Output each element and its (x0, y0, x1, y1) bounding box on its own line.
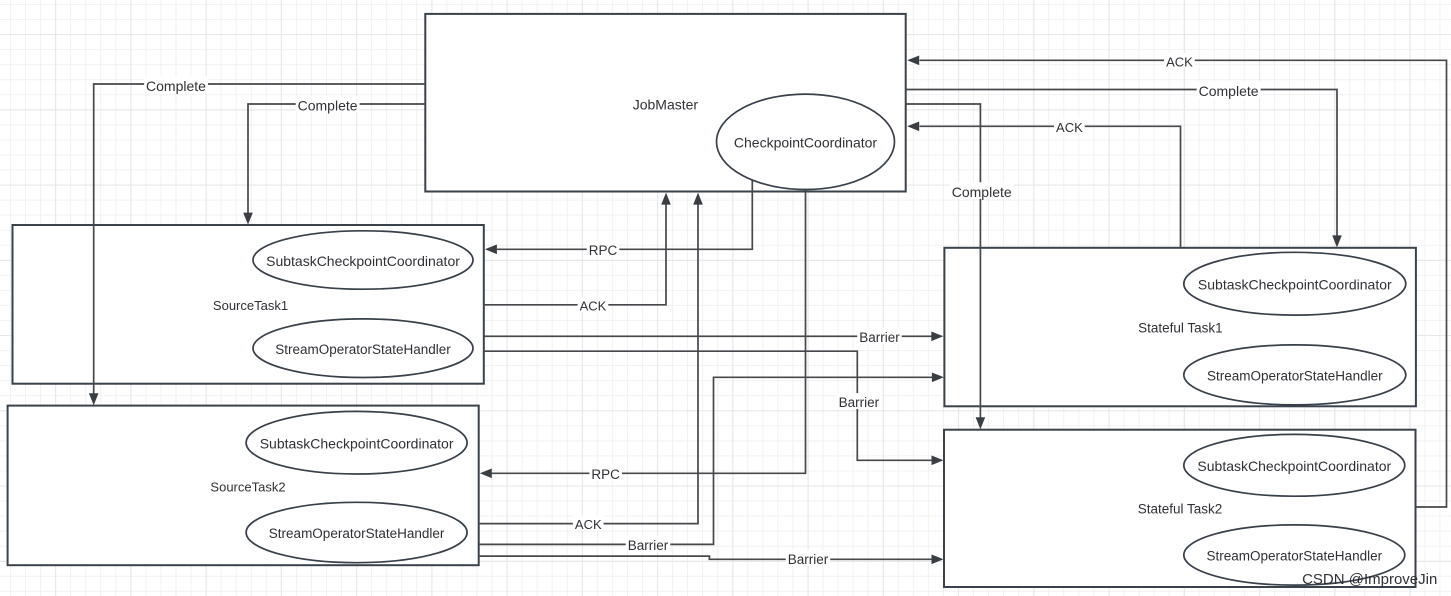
arrowhead up into JobMaster bottom (ACK from SourceTask2) (693, 193, 703, 205)
svg-text:JobMaster: JobMaster (633, 96, 699, 112)
label Complete (left inner wire) (296, 96, 360, 113)
svg-text:Stateful Task2: Stateful Task2 (1138, 502, 1223, 517)
svg-text:Barrier: Barrier (628, 538, 669, 553)
wire Barrier SourceTask1->Stateful Task1 (484, 335, 937, 337)
arrowhead right into Stateful Task2 left edge (Barrier) (932, 456, 944, 466)
svg-text:SubtaskCheckpointCoordinator: SubtaskCheckpointCoordinator (266, 253, 460, 269)
svg-text:SubtaskCheckpointCoordinator: SubtaskCheckpointCoordinator (1197, 458, 1391, 474)
label ACK (top right wire) (1164, 53, 1195, 68)
svg-text:Barrier: Barrier (788, 552, 829, 567)
label RPC (to SourceTask2) (589, 465, 622, 481)
wire Barrier SourceTask1 StreamOperator->Stateful Task2 (484, 351, 938, 460)
wire ACK StatefulTask2->JobMaster (outer right) (920, 60, 1447, 507)
svg-text:Complete: Complete (1199, 83, 1259, 99)
arrowhead down into Stateful Task1 top (1332, 235, 1342, 247)
label Complete (right wire to Stateful Task1) (1197, 82, 1261, 99)
svg-text:SubtaskCheckpointCoordinator: SubtaskCheckpointCoordinator (260, 436, 454, 452)
arrowhead left into JobMaster right edge (ACK 2) (907, 122, 919, 132)
wire Complete JobMaster->SourceTask2 (left outer) (94, 84, 426, 399)
svg-text:CSDN @ImproveJin: CSDN @ImproveJin (1302, 571, 1437, 588)
label Barrier (vertical wire to Stateful Task2) (837, 393, 882, 409)
svg-text:ACK: ACK (1166, 55, 1193, 70)
label RPC (to SourceTask1) (587, 241, 620, 257)
svg-text:ACK: ACK (1056, 120, 1083, 135)
wire Barrier SourceTask2->Stateful Task1 (479, 377, 938, 544)
label Complete (vertical wire to Stateful Task2) (950, 182, 1014, 199)
svg-text:StreamOperatorStateHandler: StreamOperatorStateHandler (1207, 369, 1383, 384)
wire ACK StatefulTask1->JobMaster (920, 126, 1181, 248)
svg-text:StreamOperatorStateHandler: StreamOperatorStateHandler (269, 526, 445, 541)
label Complete (left outer wire) (144, 76, 208, 93)
svg-text:StreamOperatorStateHandler: StreamOperatorStateHandler (275, 342, 451, 357)
svg-text:StreamOperatorStateHandler: StreamOperatorStateHandler (1207, 549, 1383, 564)
wire ACK SourceTask2->JobMaster (479, 199, 698, 524)
ellipse SubtaskCheckpointCoordinator (SourceTask1) (253, 231, 473, 289)
svg-text:SourceTask1: SourceTask1 (213, 298, 288, 313)
arrowhead down into SourceTask2 top (89, 393, 99, 405)
arrowhead right into Stateful Task1 left edge (Barrier lower) (932, 373, 944, 383)
svg-text:SourceTask2: SourceTask2 (210, 479, 285, 494)
ellipse StreamOperatorStateHandler (Stateful Task1) (1184, 345, 1406, 405)
svg-text:Complete: Complete (146, 78, 206, 94)
svg-text:Stateful Task1: Stateful Task1 (1138, 321, 1223, 336)
box Stateful Task2 (944, 430, 1416, 587)
wire Complete JobMaster->Stateful Task1 (right) (906, 90, 1337, 242)
wire RPC CheckpointCoordinator->SourceTask1 (497, 179, 752, 250)
box SourceTask1 (13, 225, 484, 384)
arrowhead right into Stateful Task1 left edge (Barrier) (931, 332, 943, 342)
ellipse SubtaskCheckpointCoordinator (SourceTask2) (246, 411, 467, 474)
ellipse CheckpointCoordinator (717, 94, 895, 189)
label ACK (wire from Stateful Task1) (1054, 118, 1085, 133)
svg-text:CheckpointCoordinator: CheckpointCoordinator (734, 135, 878, 151)
box JobMaster (425, 14, 905, 192)
svg-text:RPC: RPC (591, 467, 620, 482)
svg-text:ACK: ACK (575, 517, 602, 532)
label ACK (from SourceTask1) (578, 297, 609, 312)
ellipse StreamOperatorStateHandler (SourceTask2) (246, 502, 467, 562)
arrowhead up into JobMaster bottom (ACK from SourceTask1) (661, 193, 671, 205)
wire Complete JobMaster->SourceTask1 (left inner) (248, 104, 425, 218)
arrowhead right into Stateful Task2 left edge (Barrier bottom) (932, 555, 944, 565)
wire ACK SourceTask1->JobMaster (484, 199, 666, 305)
label Barrier (SourceTask2 to Stateful Task2) (786, 550, 831, 566)
box Stateful Task1 (944, 248, 1416, 406)
label Barrier (SourceTask2 to Stateful Task1) (626, 536, 671, 552)
svg-text:Complete: Complete (952, 184, 1012, 200)
ellipse SubtaskCheckpointCoordinator (Stateful Task2) (1184, 434, 1405, 496)
arrowhead down into SourceTask1 top (243, 213, 253, 225)
svg-text:Barrier: Barrier (839, 395, 880, 410)
wire Barrier SourceTask2 StreamOperator->Stateful Task2 (479, 556, 938, 559)
arrowhead left into SourceTask2 right edge (RPC 2) (480, 469, 492, 479)
svg-text:RPC: RPC (589, 243, 618, 258)
wire Complete JobMaster->Stateful Task2 (via x=980) (906, 104, 981, 423)
arrowhead down into Stateful Task2 top (976, 417, 986, 429)
svg-text:Barrier: Barrier (859, 330, 900, 345)
label ACK (from SourceTask2) (573, 516, 604, 531)
svg-text:Complete: Complete (298, 98, 358, 114)
arrowhead left into SourceTask1 right edge (RPC) (485, 245, 497, 255)
arrowhead left into JobMaster right edge (top ACK) (907, 56, 919, 66)
wire RPC CheckpointCoordinator->SourceTask2 (491, 189, 806, 473)
label Barrier (SourceTask1 to Stateful Task1) (857, 328, 902, 344)
svg-text:SubtaskCheckpointCoordinator: SubtaskCheckpointCoordinator (1198, 277, 1392, 293)
ellipse StreamOperatorStateHandler (Stateful Task2) (1184, 525, 1405, 585)
ellipse StreamOperatorStateHandler (SourceTask1) (253, 319, 473, 378)
box SourceTask2 (8, 406, 479, 566)
svg-text:ACK: ACK (580, 298, 607, 313)
ellipse SubtaskCheckpointCoordinator (Stateful Task1) (1184, 252, 1406, 315)
